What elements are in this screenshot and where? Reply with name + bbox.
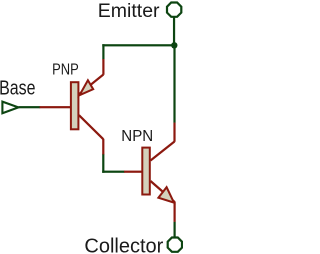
terminal Emitter [167, 3, 181, 17]
transistor Q2 NPN base pin [124, 171, 142, 173]
svg-text:PNP: PNP [52, 62, 79, 80]
wire emitter vertical [173, 17, 175, 46]
transistor Q1 PNP collector pin stub [102, 139, 104, 155]
transistor Q1 PNP base pin [40, 106, 71, 108]
wire top horizontal [102, 44, 175, 46]
terminal Base [2, 102, 18, 114]
transistor Q2 NPN emitter diagonal [151, 181, 175, 202]
transistor Q1 PNP emitter diagonal [79, 75, 103, 95]
transistor Q1 PNP emitter pin stub [102, 59, 104, 75]
svg-text:Emitter: Emitter [98, 0, 160, 22]
transistor Q2 NPN collector pin stub [173, 123, 175, 142]
svg-text:NPN: NPN [121, 128, 153, 145]
transistor Q2 NPN collector diagonal [151, 142, 175, 161]
svg-text:Collector: Collector [84, 235, 163, 254]
wire horizontal to NPN base [102, 171, 124, 173]
svg-text:Base: Base [0, 77, 35, 99]
transistor Q1 PNP collector diagonal [79, 115, 103, 139]
transistor Q1 PNP body bar [71, 82, 79, 129]
transistor Q1 PNP emitter arrow [80, 80, 94, 95]
wire vertical to NPN collector pin [173, 45, 175, 123]
junction dot [171, 42, 177, 48]
terminal Collector [168, 238, 182, 252]
wire PNP collector down [102, 154, 104, 173]
transistor Q2 NPN emitter pin stub [174, 202, 176, 222]
wire base horizontal [19, 106, 41, 108]
transistor Q2 NPN emitter arrow [158, 187, 174, 202]
transistor Q2 NPN body bar [142, 148, 150, 195]
wire vertical to PNP emitter pin [102, 44, 104, 59]
wire NPN emitter down [174, 222, 176, 238]
